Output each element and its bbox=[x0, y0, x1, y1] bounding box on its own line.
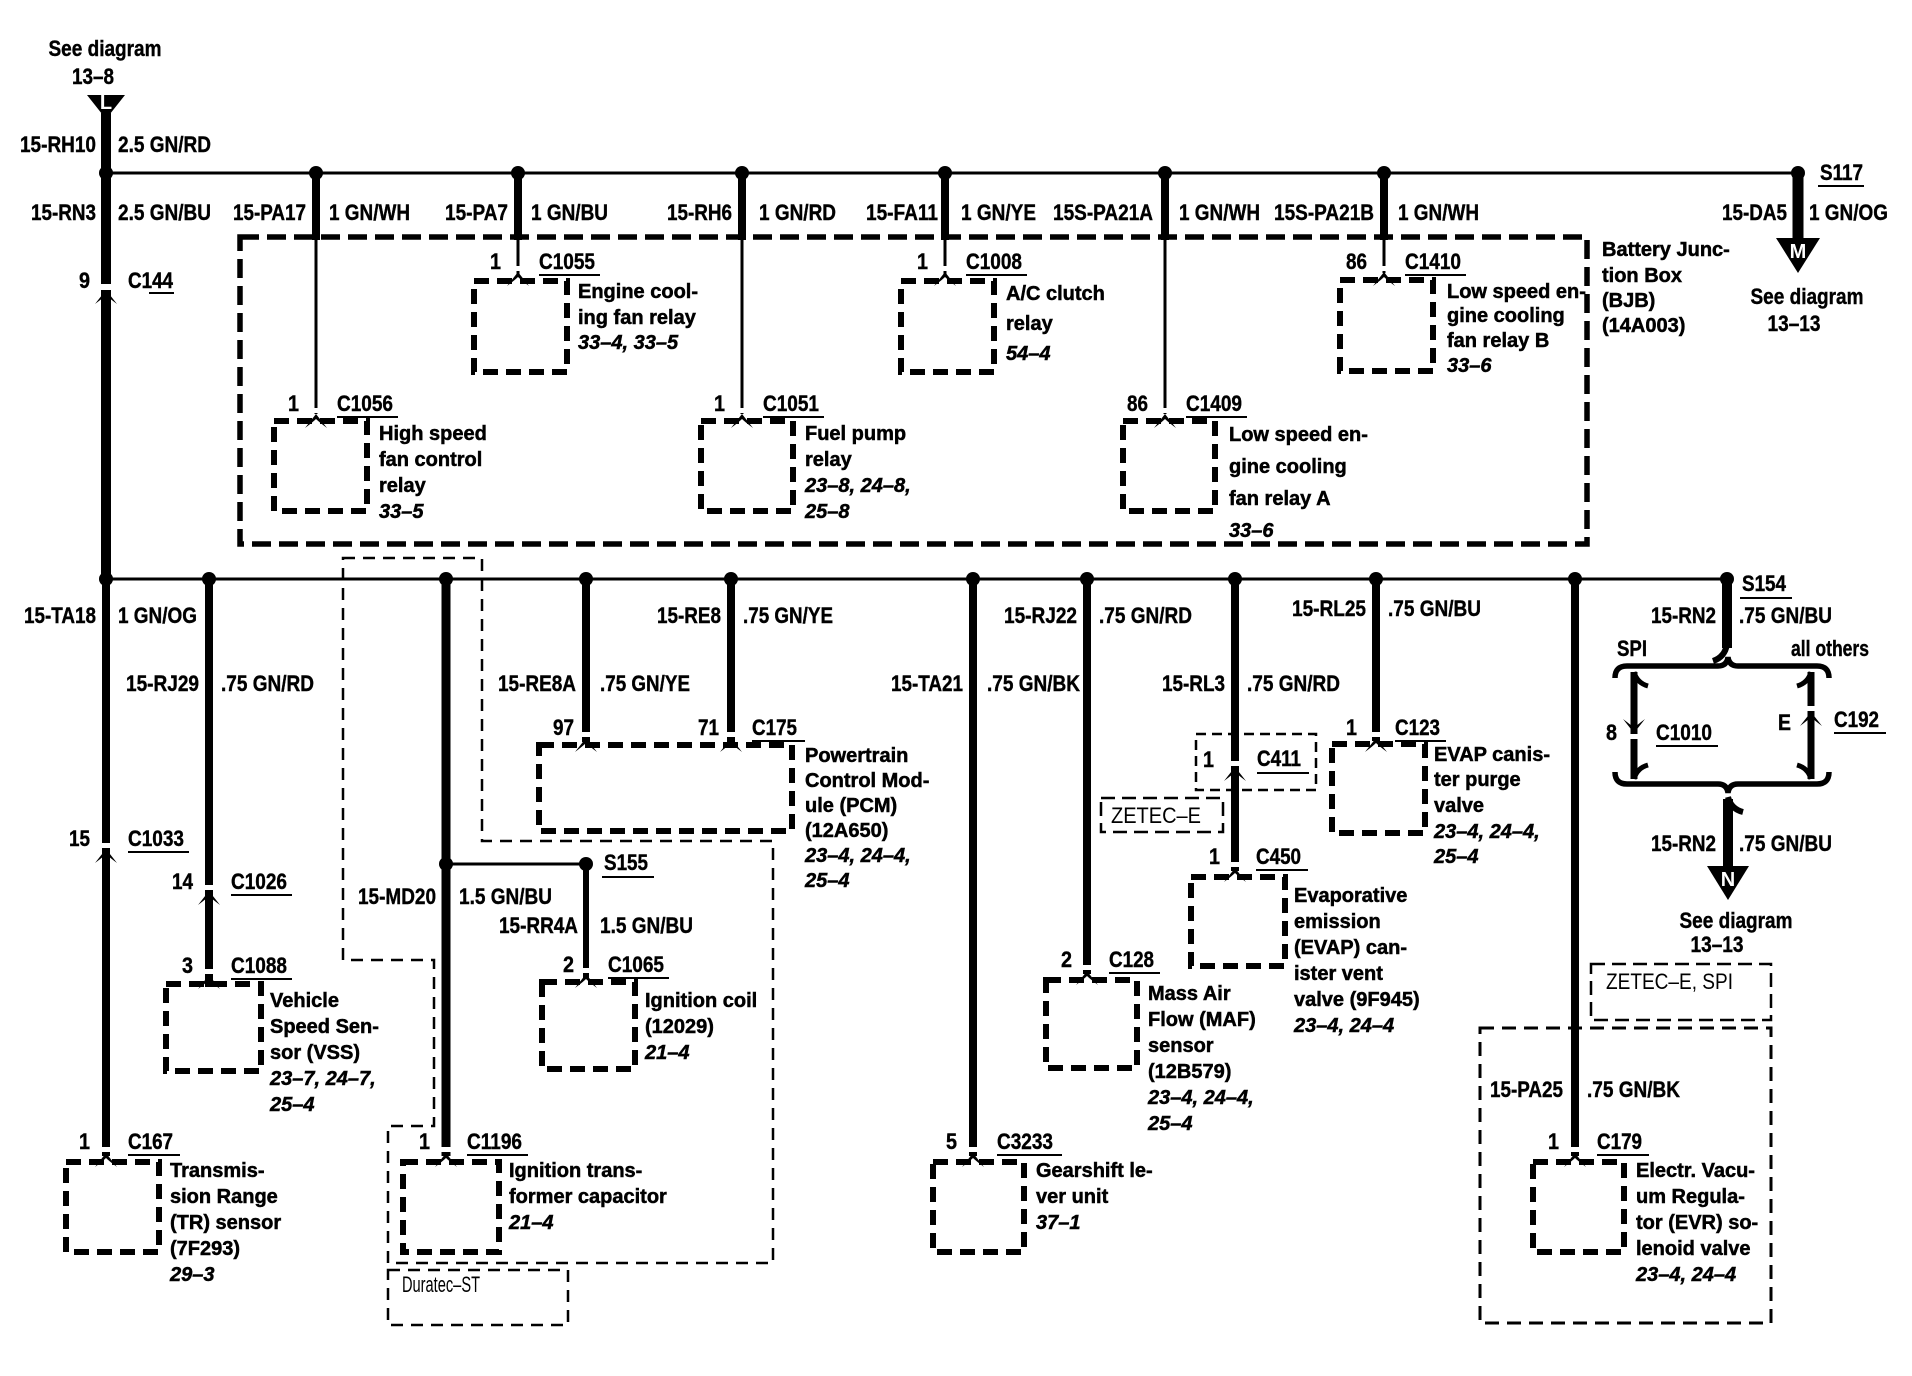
label engine cooling fan relay 33-4 33-5 bbox=[578, 281, 698, 354]
junction dot S155 right bbox=[579, 857, 593, 871]
svg-text:15-RL25: 15-RL25 bbox=[1292, 596, 1366, 621]
label 15-PA7 / 1 GN/BU bbox=[445, 200, 608, 225]
wire 15-MD20 1.5 GN/BU (bus2 to C1196) bbox=[442, 579, 451, 1156]
svg-text:15-FA11: 15-FA11 bbox=[866, 200, 938, 225]
svg-text:ing fan relay: ing fan relay bbox=[578, 307, 697, 329]
svg-text:15-RJ29: 15-RJ29 bbox=[126, 671, 199, 696]
label 15-TA21 / .75 GN/BK bbox=[891, 671, 1080, 696]
harness brace bottom bbox=[1615, 772, 1829, 793]
PCM pin 97 label bbox=[553, 715, 597, 752]
svg-text:Vehicle: Vehicle bbox=[270, 990, 339, 1012]
label Gearshift lever unit 37-1 bbox=[1036, 1160, 1153, 1234]
svg-text:1: 1 bbox=[288, 391, 299, 416]
label 15S-PA21B / 1 GN/WH bbox=[1274, 200, 1479, 225]
wire 15-FA11 inside BJB to C1008 bbox=[944, 240, 947, 275]
svg-text:Gearshift le-: Gearshift le- bbox=[1036, 1160, 1153, 1182]
relay C1055 pin 1 labels bbox=[490, 249, 600, 286]
svg-text:(7F293): (7F293) bbox=[170, 1238, 240, 1260]
svg-text:C175: C175 bbox=[752, 715, 797, 740]
svg-text:.75 GN/YE: .75 GN/YE bbox=[600, 671, 690, 696]
label 15-RL25 / .75 GN/BU bbox=[1292, 596, 1481, 621]
svg-text:15-DA5: 15-DA5 bbox=[1722, 200, 1787, 225]
wire 15-RN2 .75 GN/BU (S154 down to brace) bbox=[1713, 579, 1727, 661]
svg-text:21–4: 21–4 bbox=[644, 1042, 690, 1064]
connector C450 pin 1 labels bbox=[1209, 844, 1308, 882]
svg-text:8: 8 bbox=[1606, 720, 1617, 745]
svg-text:all others: all others bbox=[1791, 636, 1869, 661]
svg-text:Evaporative: Evaporative bbox=[1294, 885, 1407, 907]
junction dot on S154 bus at x=973 bbox=[966, 572, 980, 586]
vehicle speed sensor VSS (box, C1088) bbox=[166, 984, 261, 1071]
svg-text:25–8: 25–8 bbox=[804, 501, 850, 523]
svg-text:fan relay A: fan relay A bbox=[1229, 488, 1331, 510]
label 15-RR4A / 1.5 GN/BU bbox=[499, 913, 693, 938]
svg-text:EVAP canis-: EVAP canis- bbox=[1434, 744, 1550, 766]
svg-text:sensor: sensor bbox=[1148, 1035, 1214, 1057]
svg-text:(BJB): (BJB) bbox=[1602, 290, 1655, 312]
wire 15-FA11 1 GN/YE (bus stub) bbox=[941, 173, 949, 240]
svg-text:15-RJ22: 15-RJ22 bbox=[1004, 603, 1077, 628]
wire 15-RN3 below C144 down to TA18 bus bbox=[101, 290, 111, 582]
relay C1008 pin 1 labels bbox=[917, 249, 1027, 286]
svg-text:.75 GN/BK: .75 GN/BK bbox=[987, 671, 1080, 696]
svg-text:15-PA7: 15-PA7 bbox=[445, 200, 508, 225]
off-page connector L (triangle) bbox=[87, 92, 125, 119]
connector C1065 pin 2 labels bbox=[563, 952, 669, 988]
svg-text:C144: C144 bbox=[128, 268, 174, 293]
junction dot on S117 bus at x=1384 bbox=[1377, 166, 1391, 180]
svg-text:Ignition coil: Ignition coil bbox=[645, 990, 757, 1012]
wire 15-RR4A 1.5 GN/BU (S155 to ignition coil) bbox=[583, 864, 589, 978]
svg-text:relay: relay bbox=[1006, 313, 1054, 335]
connector C411 (dashed box) bbox=[1196, 734, 1316, 790]
svg-text:2: 2 bbox=[563, 952, 574, 977]
svg-text:1: 1 bbox=[714, 391, 725, 416]
relay C1056 pin 1 labels bbox=[288, 391, 398, 428]
connector C1010 wire (SPI branch) bbox=[1623, 672, 1648, 779]
fuel pump relay (box, C1051) bbox=[701, 421, 793, 511]
svg-text:lenoid valve: lenoid valve bbox=[1636, 1238, 1751, 1260]
junction dot on S154 bus at x=731 bbox=[724, 572, 738, 586]
wire 15S-PA21A inside BJB to C1409 bbox=[1164, 240, 1167, 414]
svg-text:23–4, 24–4: 23–4, 24–4 bbox=[1293, 1015, 1394, 1037]
low speed engine cooling fan relay A (box, C1409) bbox=[1123, 421, 1215, 511]
EVR region outline (dashed box) bbox=[1480, 1028, 1771, 1323]
svg-text:C450: C450 bbox=[1256, 844, 1301, 869]
label 15-RJ29 / .75 GN/RD bbox=[126, 671, 314, 696]
svg-text:15-RR4A: 15-RR4A bbox=[499, 913, 578, 938]
svg-text:um Regula-: um Regula- bbox=[1636, 1186, 1745, 1208]
svg-text:5: 5 bbox=[946, 1129, 957, 1154]
svg-text:15-RE8A: 15-RE8A bbox=[498, 671, 576, 696]
svg-text:former capacitor: former capacitor bbox=[509, 1186, 667, 1208]
junction dot on S154 bus at x=1087 bbox=[1080, 572, 1094, 586]
svg-text:15-RH6: 15-RH6 bbox=[667, 200, 732, 225]
svg-text:fan relay B: fan relay B bbox=[1447, 330, 1549, 352]
svg-text:C1033: C1033 bbox=[128, 826, 184, 851]
svg-text:Flow (MAF): Flow (MAF) bbox=[1148, 1009, 1256, 1031]
junction dot on S117 bus at x=518 bbox=[511, 166, 525, 180]
label Electr. Vacuum Regulator (EVR) solenoid valve 23-4 24-4 bbox=[1635, 1160, 1758, 1286]
svg-text:ZETEC–E, SPI: ZETEC–E, SPI bbox=[1606, 969, 1733, 994]
svg-text:23–4, 24–4,: 23–4, 24–4, bbox=[804, 845, 911, 867]
svg-text:C123: C123 bbox=[1395, 715, 1440, 740]
svg-text:C1409: C1409 bbox=[1186, 391, 1242, 416]
svg-text:3: 3 bbox=[182, 953, 193, 978]
wire bus S117 (horizontal) bbox=[103, 172, 1798, 175]
svg-text:fan control: fan control bbox=[379, 449, 482, 471]
svg-text:Fuel pump: Fuel pump bbox=[805, 423, 906, 445]
junction dot on S154 bus at x=1575 bbox=[1568, 572, 1582, 586]
svg-text:33–6: 33–6 bbox=[1447, 355, 1492, 377]
svg-text:23–8, 24–8,: 23–8, 24–8, bbox=[804, 475, 911, 497]
wire below C1033 to C167 bbox=[102, 849, 110, 1156]
off-page connector N (arrow down) bbox=[1707, 866, 1749, 900]
svg-text:Speed Sen-: Speed Sen- bbox=[270, 1016, 379, 1038]
junction dot S155 left bbox=[439, 857, 453, 871]
svg-text:C167: C167 bbox=[128, 1129, 173, 1154]
svg-text:See diagram: See diagram bbox=[1751, 284, 1864, 309]
svg-text:C1008: C1008 bbox=[966, 249, 1022, 274]
svg-text:1: 1 bbox=[79, 1129, 90, 1154]
svg-text:ver unit: ver unit bbox=[1036, 1186, 1109, 1208]
svg-text:54–4: 54–4 bbox=[1006, 343, 1051, 365]
svg-text:tor (EVR) so-: tor (EVR) so- bbox=[1636, 1212, 1758, 1234]
splice label S155 bbox=[602, 850, 654, 877]
svg-text:25–4: 25–4 bbox=[269, 1094, 315, 1116]
svg-text:C1410: C1410 bbox=[1405, 249, 1461, 274]
svg-text:25–4: 25–4 bbox=[804, 870, 850, 892]
label SPI bbox=[1617, 636, 1647, 661]
gearshift lever unit (box, C3233) bbox=[933, 1162, 1024, 1252]
label Duratec-ST bbox=[402, 1272, 480, 1297]
svg-text:1: 1 bbox=[1209, 844, 1220, 869]
svg-text:gine cooling: gine cooling bbox=[1447, 305, 1565, 327]
label 15-FA11 / 1 GN/YE bbox=[866, 200, 1036, 225]
svg-text:1 GN/WH: 1 GN/WH bbox=[1398, 200, 1479, 225]
ZETEC-E label box (dashed) bbox=[1101, 798, 1223, 832]
label 15-RH10 / 2.5 GN/RD bbox=[20, 132, 211, 157]
svg-text:ule (PCM): ule (PCM) bbox=[805, 795, 897, 817]
ignition transformer capacitor (box, C1196) bbox=[403, 1162, 499, 1252]
svg-text:(12B579): (12B579) bbox=[1148, 1061, 1231, 1083]
splice label S117 bbox=[1818, 160, 1864, 186]
junction dot on S154 bus at x=1376 bbox=[1369, 572, 1383, 586]
svg-text:1.5 GN/BU: 1.5 GN/BU bbox=[600, 913, 693, 938]
off-page connector M (arrow down) bbox=[1776, 238, 1820, 273]
connector C1196 pin 1 labels bbox=[419, 1129, 528, 1167]
junction dot on S154 bus at x=446 bbox=[439, 572, 453, 586]
label Evaporative emission (EVAP) canister vent valve (9F945) 23-4 24-4 bbox=[1293, 885, 1420, 1037]
svg-text:1 GN/RD: 1 GN/RD bbox=[759, 200, 836, 225]
svg-text:15-RN2: 15-RN2 bbox=[1651, 603, 1716, 628]
svg-text:ter purge: ter purge bbox=[1434, 769, 1521, 791]
label 15-PA17 / 1 GN/WH bbox=[233, 200, 410, 225]
svg-text:29–3: 29–3 bbox=[169, 1264, 215, 1286]
connector C179 pin 1 labels bbox=[1548, 1129, 1649, 1167]
svg-text:23–4, 24–4: 23–4, 24–4 bbox=[1635, 1264, 1736, 1286]
svg-text:1: 1 bbox=[1346, 715, 1357, 740]
label Mass Air Flow (MAF) sensor (12B579) 23-4 24-4 25-4 bbox=[1147, 983, 1256, 1135]
connector C128 pin 2 labels bbox=[1061, 947, 1160, 985]
label ZETEC-E bbox=[1111, 803, 1201, 828]
svg-text:15-PA17: 15-PA17 bbox=[233, 200, 306, 225]
junction dot on S117 bus at x=945 bbox=[938, 166, 952, 180]
label 15-RN2 / .75 GN/BU (upper) bbox=[1651, 603, 1832, 628]
junction dot on S154 bus at x=209 bbox=[202, 572, 216, 586]
svg-text:C128: C128 bbox=[1109, 947, 1154, 972]
label Vehicle Speed Sensor (VSS) 23-7 24-7 25-4 bbox=[269, 990, 379, 1116]
svg-text:C1010: C1010 bbox=[1656, 720, 1712, 745]
svg-text:15-PA25: 15-PA25 bbox=[1490, 1077, 1563, 1102]
svg-text:SPI: SPI bbox=[1617, 636, 1647, 661]
connector C123 pin 1 labels bbox=[1346, 715, 1446, 752]
svg-text:1: 1 bbox=[490, 249, 501, 274]
label 15-TA18 / 1 GN/OG bbox=[24, 603, 197, 628]
connector C167 pin 1 labels bbox=[79, 1129, 180, 1167]
svg-text:15-TA21: 15-TA21 bbox=[891, 671, 963, 696]
label Powertrain Control Module (PCM) (12A650) 23-4 24-4 25-4 bbox=[804, 745, 929, 892]
svg-text:15-RN3: 15-RN3 bbox=[31, 200, 96, 225]
svg-text:15S-PA21B: 15S-PA21B bbox=[1274, 200, 1374, 225]
svg-text:86: 86 bbox=[1346, 249, 1367, 274]
label Battery Junction Box (BJB) (14A003) bbox=[1602, 239, 1730, 337]
label high speed fan control relay 33-5 bbox=[379, 423, 487, 523]
wire 15S-PA21A 1 GN/WH (bus stub) bbox=[1161, 173, 1169, 240]
svg-text:33–6: 33–6 bbox=[1229, 520, 1274, 542]
mass air flow MAF sensor (box, C128) bbox=[1046, 980, 1137, 1068]
relay C1410 pin 86 labels bbox=[1346, 249, 1466, 286]
junction dot on S117 bus at x=106 bbox=[99, 166, 113, 180]
transmission range TR sensor (box, C167) bbox=[66, 1162, 159, 1252]
junction dot on S117 bus at x=1165 bbox=[1158, 166, 1172, 180]
wire 15-RH6 1 GN/RD (bus stub) bbox=[738, 173, 746, 240]
wire 15-TA18 1 GN/OG (bus2 to C1033) bbox=[102, 579, 110, 849]
wire 15-RJ29 .75 GN/RD (bus2 to VSS) bbox=[205, 579, 213, 987]
svg-text:2: 2 bbox=[1061, 947, 1072, 972]
svg-text:.75 GN/RD: .75 GN/RD bbox=[1247, 671, 1340, 696]
wire 15-RH10 2.5 GN/RD (vertical, L to S117 bus) bbox=[101, 113, 111, 176]
svg-text:1: 1 bbox=[419, 1129, 430, 1154]
ignition coil (box, C1065) bbox=[542, 982, 635, 1069]
connector C411 pin 1 labels bbox=[1203, 746, 1309, 781]
low speed engine cooling fan relay B (box, C1410) bbox=[1340, 280, 1433, 371]
svg-text:Transmis-: Transmis- bbox=[170, 1160, 264, 1182]
svg-text:23–4, 24–4,: 23–4, 24–4, bbox=[1433, 821, 1540, 843]
svg-text:1 GN/WH: 1 GN/WH bbox=[1179, 200, 1260, 225]
connector C192 pin E labels bbox=[1778, 707, 1886, 735]
svg-text:M: M bbox=[1790, 241, 1807, 263]
label 15-DA5 / 1 GN/OG bbox=[1722, 200, 1888, 225]
Duratec-ST label box (dashed) bbox=[388, 1270, 568, 1325]
svg-text:Low speed en-: Low speed en- bbox=[1447, 281, 1586, 303]
relay C1051 pin 1 labels bbox=[714, 391, 824, 428]
svg-text:.75 GN/BU: .75 GN/BU bbox=[1388, 596, 1481, 621]
label Transmission Range (TR) sensor (7F293) 29-3 bbox=[169, 1160, 281, 1286]
svg-text:valve (9F945): valve (9F945) bbox=[1294, 989, 1420, 1011]
wire 15-PA7 inside BJB to C1055 bbox=[517, 240, 520, 275]
connector C3233 pin 5 labels bbox=[946, 1129, 1062, 1167]
wire 15-RH6 inside BJB to C1051 bbox=[741, 240, 744, 414]
label 15-RJ22 / .75 GN/RD bbox=[1004, 603, 1192, 628]
svg-text:L: L bbox=[100, 92, 112, 114]
svg-text:25–4: 25–4 bbox=[1433, 846, 1479, 868]
svg-text:71: 71 bbox=[698, 715, 719, 740]
svg-text:Low speed en-: Low speed en- bbox=[1229, 424, 1368, 446]
svg-text:.75 GN/YE: .75 GN/YE bbox=[743, 603, 833, 628]
engine cooling fan relay (box, C1055) bbox=[474, 281, 567, 372]
wire 15-RL25 .75 GN/BU (bus2 to C123) bbox=[1372, 579, 1380, 741]
svg-text:gine cooling: gine cooling bbox=[1229, 456, 1347, 478]
wire 15-RE8A .75 GN/YE (bus2 to PCM pin 97) bbox=[582, 579, 590, 742]
label 15-RH6 / 1 GN/RD bbox=[667, 200, 836, 225]
svg-text:13–13: 13–13 bbox=[1768, 311, 1821, 336]
svg-text:1: 1 bbox=[1203, 747, 1214, 772]
svg-text:15-RN2: 15-RN2 bbox=[1651, 831, 1716, 856]
label fuel pump relay 23-8 24-8 25-8 bbox=[804, 423, 911, 523]
connector C144 pin 9 (inline, arrow) bbox=[79, 268, 174, 304]
svg-text:33–4, 33–5: 33–4, 33–5 bbox=[578, 332, 679, 354]
svg-text:1 GN/WH: 1 GN/WH bbox=[329, 200, 410, 225]
svg-text:.75 GN/BU: .75 GN/BU bbox=[1739, 831, 1832, 856]
battery junction box BJB outline (dashed) bbox=[240, 237, 1587, 544]
svg-text:High speed: High speed bbox=[379, 423, 487, 445]
svg-text:33–5: 33–5 bbox=[379, 501, 424, 523]
relay C1409 pin 86 labels bbox=[1127, 391, 1247, 428]
svg-text:Control Mod-: Control Mod- bbox=[805, 770, 929, 792]
svg-text:Engine cool-: Engine cool- bbox=[578, 281, 698, 303]
svg-text:1.5 GN/BU: 1.5 GN/BU bbox=[459, 884, 552, 909]
svg-text:9: 9 bbox=[79, 268, 90, 293]
electric vacuum regulator EVR solenoid valve (box, C179) bbox=[1533, 1162, 1624, 1252]
svg-text:21–4: 21–4 bbox=[508, 1212, 554, 1234]
svg-text:(12A650): (12A650) bbox=[805, 820, 888, 842]
svg-text:Battery Junc-: Battery Junc- bbox=[1602, 239, 1730, 261]
harness brace top (SPI / all others split) bbox=[1615, 657, 1829, 678]
connector C1088 pin 3 labels bbox=[182, 953, 292, 989]
see-diagram 13-8 note (top left) bbox=[49, 36, 162, 89]
junction dot on S154 bus at x=586 bbox=[579, 572, 593, 586]
svg-text:1 GN/OG: 1 GN/OG bbox=[118, 603, 197, 628]
svg-text:C1055: C1055 bbox=[539, 249, 595, 274]
svg-text:Mass Air: Mass Air bbox=[1148, 983, 1231, 1005]
A/C clutch relay (box, C1008) bbox=[901, 281, 994, 372]
svg-text:S154: S154 bbox=[1742, 571, 1787, 596]
junction dot on S154 bus at x=1727 bbox=[1720, 572, 1734, 586]
label 15-RN2 / .75 GN/BU (lower) bbox=[1651, 831, 1832, 856]
wire 15-RL3 .75 GN/RD (bus2 through C411 to C450) bbox=[1231, 579, 1239, 871]
svg-text:C3233: C3233 bbox=[997, 1129, 1053, 1154]
svg-text:.75 GN/RD: .75 GN/RD bbox=[1099, 603, 1192, 628]
svg-text:1: 1 bbox=[1548, 1129, 1559, 1154]
svg-text:86: 86 bbox=[1127, 391, 1148, 416]
label A/C clutch relay 54-4 bbox=[1006, 283, 1105, 365]
label 15-RE8 / .75 GN/YE bbox=[657, 603, 833, 628]
wire 15-PA7 1 GN/BU (bus stub) bbox=[514, 173, 522, 240]
svg-text:Duratec–ST: Duratec–ST bbox=[402, 1272, 480, 1297]
svg-text:23–4, 24–4,: 23–4, 24–4, bbox=[1147, 1087, 1254, 1109]
PCM pin 71 / C175 labels bbox=[698, 715, 805, 752]
svg-text:C411: C411 bbox=[1257, 746, 1301, 771]
svg-text:13–8: 13–8 bbox=[72, 64, 114, 89]
EVAP canister vent valve (box, C450) bbox=[1191, 877, 1285, 966]
wire 15-DA5 1 GN/OG (bus to M) bbox=[1793, 173, 1804, 242]
svg-text:sion Range: sion Range bbox=[170, 1186, 278, 1208]
svg-text:.75 GN/BK: .75 GN/BK bbox=[1587, 1077, 1680, 1102]
label Ignition coil (12029) 21-4 bbox=[644, 990, 757, 1064]
svg-text:S155: S155 bbox=[604, 850, 648, 875]
splice S155 (horizontal link) bbox=[446, 863, 586, 866]
svg-text:97: 97 bbox=[553, 715, 574, 740]
svg-text:25–4: 25–4 bbox=[1147, 1113, 1193, 1135]
label all others bbox=[1791, 636, 1869, 661]
svg-text:sor (VSS): sor (VSS) bbox=[270, 1042, 360, 1064]
wire 15S-PA21B inside BJB to C1410 bbox=[1383, 240, 1386, 273]
junction dot on S154 bus at x=1235 bbox=[1228, 572, 1242, 586]
svg-text:ister vent: ister vent bbox=[1294, 963, 1383, 985]
svg-text:(EVAP) can-: (EVAP) can- bbox=[1294, 937, 1407, 959]
svg-text:2.5 GN/BU: 2.5 GN/BU bbox=[118, 200, 211, 225]
svg-text:A/C clutch: A/C clutch bbox=[1006, 283, 1105, 305]
wire 15-PA17 inside BJB to C1056 bbox=[315, 240, 318, 414]
junction dot on S117 bus at x=742 bbox=[735, 166, 749, 180]
svg-text:15-TA18: 15-TA18 bbox=[24, 603, 96, 628]
label low speed engine cooling fan relay A 33-6 bbox=[1229, 424, 1368, 542]
svg-text:C179: C179 bbox=[1597, 1129, 1642, 1154]
connector C1033 pin 15 (inline, arrow) bbox=[69, 826, 189, 863]
junction dot on S117 bus at x=1798 bbox=[1791, 166, 1805, 180]
svg-text:1 GN/BU: 1 GN/BU bbox=[531, 200, 608, 225]
svg-text:See diagram: See diagram bbox=[1680, 908, 1793, 933]
svg-text:15-RE8: 15-RE8 bbox=[657, 603, 721, 628]
svg-text:.75 GN/RD: .75 GN/RD bbox=[221, 671, 314, 696]
wire 15-PA25 .75 GN/BK (bus2 to C179) bbox=[1571, 579, 1579, 1156]
label 15-PA25 / .75 GN/BK bbox=[1490, 1077, 1680, 1102]
svg-text:C1026: C1026 bbox=[231, 869, 287, 894]
svg-text:Powertrain: Powertrain bbox=[805, 745, 908, 767]
wire 15-RE8 .75 GN/YE (bus2 to PCM pin 71) bbox=[727, 579, 735, 742]
svg-text:15-MD20: 15-MD20 bbox=[358, 884, 436, 909]
svg-text:15: 15 bbox=[69, 826, 90, 851]
svg-text:1 GN/OG: 1 GN/OG bbox=[1809, 200, 1888, 225]
svg-text:(TR) sensor: (TR) sensor bbox=[170, 1212, 281, 1234]
wire 15-RJ22 .75 GN/RD (bus2 to MAF) bbox=[1083, 579, 1091, 974]
svg-text:Ignition trans-: Ignition trans- bbox=[509, 1160, 642, 1182]
svg-text:C1065: C1065 bbox=[608, 952, 664, 977]
label low speed engine cooling fan relay B 33-6 bbox=[1447, 281, 1586, 377]
wire 15-PA17 1 GN/WH (bus stub) bbox=[312, 173, 320, 240]
wire bus S154 (horizontal) bbox=[106, 578, 1727, 581]
EVAP canister purge valve (box, C123) bbox=[1332, 744, 1425, 833]
svg-text:1 GN/YE: 1 GN/YE bbox=[961, 200, 1036, 225]
svg-text:ZETEC–E: ZETEC–E bbox=[1111, 803, 1201, 828]
ZETEC-E, SPI label box (dashed) bbox=[1591, 964, 1771, 1020]
svg-text:2.5 GN/RD: 2.5 GN/RD bbox=[118, 132, 211, 157]
see-diagram 13-13 note (top right) bbox=[1751, 284, 1864, 336]
splice label S154 bbox=[1740, 571, 1792, 598]
svg-text:C1056: C1056 bbox=[337, 391, 393, 416]
svg-text:C1088: C1088 bbox=[231, 953, 287, 978]
svg-text:15S-PA21A: 15S-PA21A bbox=[1053, 200, 1153, 225]
svg-text:1: 1 bbox=[917, 249, 928, 274]
junction dot on S117 bus at x=316 bbox=[309, 166, 323, 180]
svg-text:N: N bbox=[1721, 869, 1735, 891]
label 15S-PA21A / 1 GN/WH bbox=[1053, 200, 1260, 225]
svg-text:15-RL3: 15-RL3 bbox=[1162, 671, 1225, 696]
wire 15S-PA21B 1 GN/WH (bus stub) bbox=[1380, 173, 1388, 240]
svg-text:Electr. Vacu-: Electr. Vacu- bbox=[1636, 1160, 1755, 1182]
label 15-MD20 / 1.5 GN/BU bbox=[358, 884, 552, 909]
